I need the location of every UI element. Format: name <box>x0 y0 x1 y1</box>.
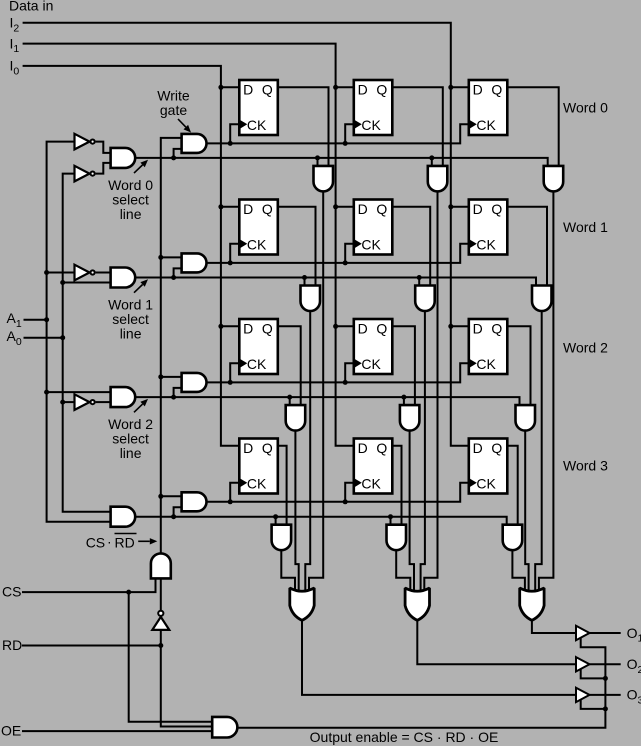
and-gate read word3 bit1 <box>387 525 407 551</box>
clock arrow word0 bit2 <box>470 120 477 128</box>
wire CK branch word1 bit0 <box>230 244 239 263</box>
and-gate word1 select <box>111 268 136 288</box>
wire Q output word2 bit0 <box>278 326 301 405</box>
svg-text:Q: Q <box>376 82 387 98</box>
buffer O3 <box>576 688 590 702</box>
svg-text:CS: CS <box>2 584 21 600</box>
svg-text:·: · <box>107 534 112 550</box>
junction data bus bit0 word2 <box>218 324 223 329</box>
wire D input word2 bit1 <box>336 325 354 327</box>
inverter word0 A1 <box>75 134 90 150</box>
svg-text:RD: RD <box>115 535 135 551</box>
wire A0 to word1 gate <box>63 282 111 284</box>
svg-text:Q: Q <box>262 82 273 98</box>
clock arrow word2 bit0 <box>240 359 247 367</box>
clock arrow word3 bit1 <box>355 479 362 487</box>
svg-text:Q: Q <box>262 201 273 217</box>
svg-text:gate: gate <box>160 102 187 118</box>
clock arrow word1 bit0 <box>240 240 247 248</box>
wire A0 bus <box>63 174 111 512</box>
and-gate read word2 bit1 <box>400 405 420 431</box>
wire CS.RD bus to write gate 0 <box>161 138 182 555</box>
junction CK word0 bit0 <box>228 141 233 146</box>
wire Q output word1 bit2 <box>507 207 547 286</box>
buffer O2 <box>576 657 590 671</box>
clock arrow word3 bit0 <box>240 479 247 487</box>
junction A1 input <box>44 317 49 322</box>
wire word0 invA output <box>96 142 111 153</box>
svg-text:Q: Q <box>376 201 387 217</box>
svg-text:CK: CK <box>247 356 267 372</box>
flip-flop word3 bit0 <box>239 439 277 494</box>
wire CK branch word0 bit0 <box>230 124 239 143</box>
inverter word0 A0 <box>75 166 90 182</box>
wire OR bit1 to buffer O2 <box>417 619 576 664</box>
svg-text:D: D <box>243 320 253 336</box>
arrow word2 select line <box>134 404 143 412</box>
and-gate write gate word3 <box>182 492 207 511</box>
wire CK branch word3 bit1 <box>345 483 354 502</box>
junction select word3 bit0 <box>273 514 278 519</box>
wire select tap to write gate 3 <box>174 507 182 516</box>
and-gate write gate word1 <box>182 253 207 272</box>
wire select drop word1 bit0 <box>304 278 306 286</box>
svg-text:Q: Q <box>491 82 502 98</box>
wire Q output word0 bit1 <box>392 87 443 166</box>
wire read gate output word0 bit0 <box>309 191 323 594</box>
clock arrow word2 bit2 <box>470 359 477 367</box>
wire D input word0 bit0 <box>221 86 239 88</box>
wire CK branch word3 bit0 <box>230 483 239 502</box>
svg-text:Word 0: Word 0 <box>563 100 608 116</box>
junction A1 word1 <box>44 270 49 275</box>
junction CS <box>126 590 131 595</box>
junction CK word3 bit1 <box>343 499 348 504</box>
wire enable O2 <box>581 669 606 678</box>
svg-text:D: D <box>358 201 368 217</box>
or-gate output bit2 <box>520 588 544 620</box>
junction CK word1 bit1 <box>343 260 348 265</box>
junction data bus bit2 word0 <box>448 85 453 90</box>
wire D input word2 bit2 <box>451 325 469 327</box>
and-gate read word3 bit2 <box>503 525 523 551</box>
wire write gate 3 output CK line <box>207 483 469 502</box>
svg-text:D: D <box>243 440 253 456</box>
svg-text:Q: Q <box>376 321 387 337</box>
flip-flop word2 bit1 <box>354 319 393 374</box>
junction A0 word2 <box>60 400 65 405</box>
wire CK branch word0 bit1 <box>345 124 354 143</box>
wire OR bit2 to buffer O1 <box>532 619 576 633</box>
junction select word2 bit0 <box>287 395 292 400</box>
and-gate read word1 bit2 <box>532 286 552 312</box>
wire read gate output word2 bit2 <box>525 431 528 594</box>
junction CK word2 bit0 <box>228 380 233 385</box>
flip-flop word0 bit1 <box>354 80 393 135</box>
junction A0 input <box>60 335 65 340</box>
wire word2 select line <box>135 397 519 405</box>
and-gate word2 select <box>111 387 136 407</box>
and-gate read word3 bit0 <box>272 525 292 551</box>
junction data bus bit2 word1 <box>448 204 453 209</box>
svg-text:RD: RD <box>2 637 22 653</box>
wire I0 line and data bus bit0 <box>23 66 240 446</box>
wire D input word0 bit1 <box>336 86 354 88</box>
wire O2 output <box>590 663 621 665</box>
svg-text:CK: CK <box>476 117 496 133</box>
wire A1 to word1 inverter <box>47 272 75 274</box>
svg-text:D: D <box>358 81 368 97</box>
wire A1 to word2 gate <box>47 391 111 393</box>
junction data bus bit0 word1 <box>218 204 223 209</box>
arrow CS.RDbar to bus <box>138 540 150 542</box>
wire select drop word1 bit1 <box>418 278 420 286</box>
svg-text:D: D <box>473 201 483 217</box>
svg-text:line: line <box>120 445 142 461</box>
svg-text:Q: Q <box>262 321 273 337</box>
wire OR bit0 to buffer O3 <box>302 619 576 695</box>
junction data bus bit1 word2 <box>333 324 338 329</box>
junction select tap word1 <box>171 275 176 280</box>
wire select drop word3 bit1 <box>390 517 392 525</box>
junction RD <box>158 643 163 648</box>
wire write gate 1 output CK line <box>207 244 469 263</box>
wire Q output word0 bit0 <box>278 87 329 166</box>
junction select word1 bit1 <box>417 275 422 280</box>
junction select word1 bit0 <box>302 275 307 280</box>
flip-flop word1 bit1 <box>354 200 393 255</box>
arrow word0 select line <box>134 165 143 173</box>
wire RD inverted to AND <box>160 579 162 613</box>
and-gate write gate word2 <box>182 373 207 392</box>
junction select tap word0 <box>171 155 176 160</box>
flip-flop word1 bit0 <box>239 200 277 255</box>
and-gate read word2 bit0 <box>286 405 306 431</box>
wire select tap to write gate 0 <box>174 149 182 158</box>
wire Q output word2 bit2 <box>507 326 530 405</box>
junction select word0 bit0 <box>315 155 320 160</box>
or-gate output bit0 <box>290 588 314 620</box>
wire Q output word2 bit1 <box>392 326 415 405</box>
wire CS input <box>22 579 156 593</box>
junction CS.RD bus word1 <box>158 255 163 260</box>
wire enable O3 <box>581 700 606 709</box>
wire RD branch to output gate <box>161 646 212 727</box>
wire CS branch to output gate <box>129 592 213 722</box>
inverter RD <box>152 617 169 630</box>
and-gate output enable <box>212 717 237 738</box>
junction enable O3 <box>603 706 608 711</box>
wire D input word2 bit0 <box>221 325 239 327</box>
junction data bus bit1 word1 <box>333 204 338 209</box>
wire D input word1 bit2 <box>451 206 469 208</box>
wire A0 input <box>24 337 63 339</box>
svg-text:Data in: Data in <box>9 0 53 14</box>
clock arrow word0 bit0 <box>240 120 247 128</box>
svg-text:Word 1: Word 1 <box>563 219 608 235</box>
svg-text:D: D <box>358 440 368 456</box>
wire O3 output <box>590 694 621 696</box>
wire read gate output word2 bit0 <box>295 431 298 594</box>
junction A1 word2 <box>44 390 49 395</box>
svg-text:Word 2: Word 2 <box>563 340 608 356</box>
wire word2 inverter output <box>96 401 111 403</box>
flip-flop word3 bit1 <box>354 439 393 494</box>
or-gate output bit1 <box>405 588 429 620</box>
inverter word1 A1 <box>75 265 90 281</box>
svg-text:line: line <box>120 326 142 342</box>
svg-text:OE: OE <box>1 723 21 739</box>
svg-text:D: D <box>243 81 253 97</box>
wire D input word0 bit2 <box>451 86 469 88</box>
wire read gate output word0 bit2 <box>539 191 554 594</box>
wire read gate output word3 bit2 <box>512 550 525 594</box>
and-gate read word0 bit0 <box>314 166 334 192</box>
wire RD to inverter <box>160 630 162 646</box>
wire Q output word1 bit1 <box>392 207 430 286</box>
wire write gate 2 output CK line <box>207 363 469 382</box>
svg-text:D: D <box>473 81 483 97</box>
svg-text:CK: CK <box>247 476 267 492</box>
wire read gate output word1 bit2 <box>535 311 542 594</box>
svg-text:D: D <box>473 440 483 456</box>
wire Q output word3 bit1 <box>392 446 401 525</box>
wire CK branch word1 bit1 <box>345 244 354 263</box>
wire select tap to write gate 1 <box>174 268 182 277</box>
wire Q output word3 bit0 <box>278 446 287 525</box>
wire read gate output word1 bit0 <box>305 311 310 594</box>
wire A1 input <box>24 319 47 321</box>
wire read gate output word3 bit1 <box>396 550 410 594</box>
svg-text:line: line <box>120 206 142 222</box>
junction CK word2 bit1 <box>343 380 348 385</box>
junction data bus bit1 word0 <box>333 85 338 90</box>
junction CK word3 bit0 <box>228 499 233 504</box>
svg-text:D: D <box>243 201 253 217</box>
and-gate word0 select <box>111 148 136 168</box>
and-gate CS.RD write enable <box>151 553 171 578</box>
wire read gate output word1 bit1 <box>421 311 425 594</box>
junction data bus bit2 word2 <box>448 324 453 329</box>
wire select drop word0 bit1 <box>431 158 433 166</box>
svg-text:CS: CS <box>86 535 105 551</box>
wire A1 bus <box>47 142 111 522</box>
svg-text:CK: CK <box>476 356 496 372</box>
svg-text:CK: CK <box>247 237 267 253</box>
arrow word1 select line <box>134 284 143 292</box>
wire CK branch word2 bit0 <box>230 363 239 382</box>
flip-flop word2 bit2 <box>469 319 508 374</box>
wire word3 select line <box>135 517 507 525</box>
wire CS.RD bus to write gate 1 <box>161 256 182 258</box>
junction A0 word1 <box>60 280 65 285</box>
junction enable O2 <box>603 676 608 681</box>
svg-text:CK: CK <box>361 237 381 253</box>
wire select drop word2 bit1 <box>403 397 405 405</box>
clock arrow word1 bit1 <box>355 240 362 248</box>
wire CK branch word2 bit1 <box>345 363 354 382</box>
wire write gate 0 output CK line <box>207 124 469 143</box>
junction CS.RD bus word3 <box>158 494 163 499</box>
and-gate read word2 bit2 <box>516 405 536 431</box>
and-gate read word0 bit1 <box>428 166 448 192</box>
svg-text:Q: Q <box>491 321 502 337</box>
clock arrow word2 bit1 <box>355 359 362 367</box>
wire word0 invB output <box>96 163 111 174</box>
svg-text:Q: Q <box>262 440 273 456</box>
junction data bus bit0 word0 <box>218 85 223 90</box>
wire select drop word0 bit0 <box>317 158 319 166</box>
svg-text:D: D <box>473 320 483 336</box>
wire D input word1 bit0 <box>221 206 239 208</box>
and-gate read word1 bit0 <box>301 286 321 312</box>
buffer O1 <box>576 626 590 640</box>
junction select word2 bit1 <box>401 395 406 400</box>
svg-text:Word 3: Word 3 <box>563 457 608 473</box>
and-gate read word1 bit1 <box>415 286 435 312</box>
junction CK word1 bit0 <box>228 260 233 265</box>
wire Q output word3 bit2 <box>507 446 517 525</box>
svg-text:CK: CK <box>247 117 267 133</box>
svg-text:CK: CK <box>361 356 381 372</box>
wire read gate output word2 bit1 <box>410 431 414 594</box>
inverter word2 A0 <box>75 394 90 410</box>
wire I2 line and data bus bit2 <box>23 23 469 446</box>
flip-flop word0 bit0 <box>239 80 277 135</box>
clock arrow word1 bit2 <box>470 240 477 248</box>
wire A0 to word2 inverter <box>63 401 75 403</box>
svg-text:CK: CK <box>476 476 496 492</box>
svg-text:Q: Q <box>491 440 502 456</box>
arrow to write gate <box>178 119 186 127</box>
wire word0 select line <box>135 158 548 166</box>
wire Q output word0 bit2 <box>507 87 558 166</box>
wire RD input <box>22 645 161 647</box>
junction CS.RD bus word2 <box>158 374 163 379</box>
svg-text:Q: Q <box>376 440 387 456</box>
wire O1 output <box>590 632 621 634</box>
flip-flop word3 bit2 <box>469 439 508 494</box>
wire read gate output word3 bit0 <box>281 550 295 594</box>
and-gate read word0 bit2 <box>544 166 564 192</box>
svg-text:CK: CK <box>361 117 381 133</box>
junction select word0 bit1 <box>429 155 434 160</box>
wire word1 inverter output <box>96 272 111 274</box>
junction CK word0 bit1 <box>343 141 348 146</box>
svg-text:D: D <box>358 320 368 336</box>
junction select tap word2 <box>171 395 176 400</box>
and-gate write gate word0 <box>182 134 207 153</box>
wire CS.RD bus to write gate 3 <box>161 495 182 497</box>
flip-flop word2 bit0 <box>239 319 277 374</box>
junction select tap word3 <box>171 514 176 519</box>
wire CS.RD bus to write gate 2 <box>161 376 182 378</box>
and-gate word3 select <box>111 507 136 527</box>
wire word1 select line <box>135 278 536 286</box>
wire Q output word1 bit0 <box>278 207 316 286</box>
svg-text:CK: CK <box>361 476 381 492</box>
wire OE input <box>22 730 212 732</box>
clock arrow word0 bit1 <box>355 120 362 128</box>
flip-flop word1 bit2 <box>469 200 508 255</box>
clock arrow word3 bit2 <box>470 479 477 487</box>
wire I1 line and data bus bit1 <box>23 44 354 446</box>
wire select drop word2 bit0 <box>289 397 291 405</box>
svg-text:CK: CK <box>476 237 496 253</box>
junction select word3 bit1 <box>388 514 393 519</box>
wire enable O1 and output enable line <box>237 638 605 728</box>
svg-text:Output enable = CS · RD · OE: Output enable = CS · RD · OE <box>310 729 499 745</box>
flip-flop word0 bit2 <box>469 80 508 135</box>
wire read gate output word0 bit1 <box>424 191 437 594</box>
wire D input word1 bit1 <box>336 206 354 208</box>
svg-text:Q: Q <box>491 201 502 217</box>
wire select drop word3 bit0 <box>275 517 277 525</box>
wire select tap to write gate 2 <box>174 388 182 397</box>
